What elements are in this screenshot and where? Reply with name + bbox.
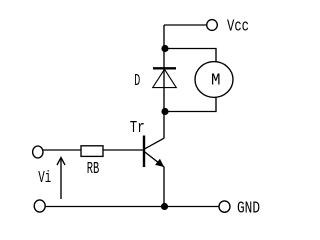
wire bottom rail bbox=[45, 206, 219, 208]
transistor Tr emitter arrow bbox=[155, 159, 164, 167]
wire motor bottom bbox=[165, 97, 216, 111]
terminal GND bbox=[219, 201, 230, 212]
transistor Tr collector diagonal bbox=[145, 138, 164, 149]
transistor Tr emitter diagonal bbox=[145, 152, 164, 167]
svg-text:Vi: Vi bbox=[38, 169, 51, 188]
svg-text:D: D bbox=[134, 72, 140, 91]
wire left vertical (Vcc rail down through diode to collector) bbox=[163, 25, 165, 138]
label D bbox=[134, 72, 140, 91]
wire input to resistor bbox=[43, 149, 81, 151]
label Vcc bbox=[227, 18, 249, 37]
arrow Vi (input voltage) bbox=[57, 158, 65, 200]
svg-text:GND: GND bbox=[237, 199, 260, 218]
label Vi bbox=[38, 169, 51, 188]
motor M1 bbox=[195, 62, 233, 98]
node junction dot (diode anode / collector) bbox=[161, 108, 168, 115]
label Tr bbox=[130, 119, 145, 138]
wire resistor to base bbox=[103, 149, 143, 151]
label GND bbox=[237, 199, 260, 218]
node junction dot (emitter / ground rail) bbox=[161, 203, 168, 210]
diode D cathode bar bbox=[153, 67, 176, 69]
svg-text:Vcc: Vcc bbox=[227, 18, 249, 37]
node junction dot (diode/motor top) bbox=[161, 45, 168, 52]
transistor Tr base bar bbox=[143, 136, 145, 168]
terminal input top-left bbox=[33, 146, 43, 158]
label RB bbox=[87, 160, 100, 179]
svg-text:M: M bbox=[211, 70, 221, 89]
terminal input bottom-left bbox=[34, 200, 45, 212]
resistor RB body bbox=[81, 146, 103, 157]
terminal Vcc bbox=[207, 20, 218, 31]
svg-text:RB: RB bbox=[87, 160, 100, 179]
svg-text:Tr: Tr bbox=[130, 119, 145, 138]
wire to motor top bbox=[165, 49, 216, 63]
diode D triangle bbox=[153, 69, 177, 87]
wire Vcc to top corner bbox=[164, 24, 207, 26]
wire emitter vertical bbox=[163, 167, 165, 207]
